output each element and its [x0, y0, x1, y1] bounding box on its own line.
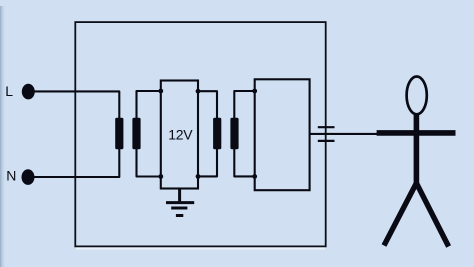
stray capacitor plate bottom: [318, 140, 335, 142]
junction dot output block bottom: [252, 174, 257, 179]
wire 12V to T2 primary top: [198, 91, 217, 118]
enclosure box: [75, 22, 325, 246]
transformer T1 secondary winding: [132, 118, 140, 149]
12V supply block: [161, 81, 198, 189]
output block: [255, 79, 310, 190]
left screen edge shading: [0, 6, 5, 267]
wire T1 secondary top to 12V supply: [137, 91, 161, 119]
terminal L: [22, 84, 35, 100]
stray capacitor plate top: [318, 126, 335, 128]
enclosure bottom highlight: [76, 247, 325, 249]
wire T2 secondary bottom to output block: [234, 148, 254, 176]
junction dot 12V left top: [158, 89, 163, 94]
junction dot 12V right bottom: [196, 174, 201, 179]
wire output to person: [310, 133, 377, 135]
svg-text:12V: 12V: [168, 126, 193, 142]
svg-text:L: L: [5, 83, 13, 99]
person legs: [384, 183, 449, 247]
transformer T2 primary winding: [213, 118, 221, 149]
transformer T1 primary winding: [115, 118, 123, 149]
junction dot 12V right top: [196, 89, 201, 94]
junction dot output block top: [252, 89, 257, 94]
wire T2 secondary top to output block: [234, 91, 254, 119]
person head: [407, 77, 427, 115]
junction dot 12V left bottom: [158, 174, 163, 179]
svg-text:N: N: [6, 168, 16, 184]
ground: [166, 189, 194, 216]
wire T1 secondary bottom to 12V supply: [137, 148, 161, 176]
wire 12V to T2 primary bottom: [198, 148, 217, 176]
transformer T2 secondary winding: [230, 118, 238, 149]
person arms: [377, 130, 456, 136]
wire L to primary winding: [28, 91, 119, 118]
person body: [414, 112, 420, 184]
wire N to primary winding: [28, 148, 119, 177]
terminal N: [22, 169, 35, 185]
left screen edge line: [0, 6, 1, 267]
